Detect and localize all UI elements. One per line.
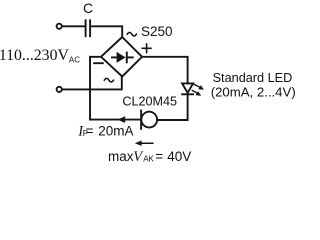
current regulator diode CL20M45 (circle + bar) [141,111,157,129]
svg-text:=: = [155,149,163,164]
terminal T1 (AC line input, top) [57,24,62,29]
wire [142,57,188,84]
AC mark ~ (top, near top vertex) [127,32,136,36]
current direction arrow above "max VAK" [135,141,153,146]
svg-text:max: max [108,149,134,164]
svg-text:Standard LED: Standard LED [213,71,293,85]
wire [91,26,122,36]
svg-text:C: C [83,0,93,16]
wire [62,25,85,27]
svg-text:CL20M45: CL20M45 [122,95,177,109]
minus output mark [94,62,103,64]
bridge internal diode symbol [112,52,133,63]
svg-text:20mA: 20mA [98,123,133,138]
svg-text:(20mA, 2...4V): (20mA, 2...4V) [211,85,296,100]
LED light emission arrow 2 [192,91,201,96]
AC mark ~ (bottom, near bottom vertex) [104,78,113,82]
LED light emission arrow 1 [194,84,204,89]
wire with current-direction arrowhead [90,116,141,123]
svg-text:AK: AK [143,154,154,163]
wire [90,57,101,120]
bridge rectifier S250 (diamond) [101,37,142,77]
wire [62,77,122,90]
LED D1 (triangle + cathode bar) [182,83,193,94]
svg-text:=: = [86,123,94,138]
capacitor C [86,20,91,36]
wire [157,94,188,120]
terminal T2 (AC line input, bottom) [57,87,62,92]
svg-text:S250: S250 [141,24,173,39]
svg-text:40V: 40V [167,149,191,164]
svg-text:110...230VAC: 110...230VAC [0,47,80,65]
plus output mark [142,44,151,53]
